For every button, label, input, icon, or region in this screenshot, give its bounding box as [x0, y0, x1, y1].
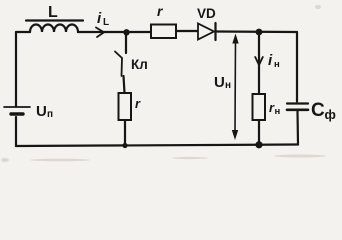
wire bottom rail: [16, 145, 298, 147]
node junction dot (switch branch, top): [123, 29, 129, 35]
svg-text:U: U: [214, 74, 225, 91]
battery Un: [4, 107, 30, 114]
wire top rail left segment: [16, 31, 30, 33]
inductor L: [26, 21, 83, 33]
wire resistor to bottom rail: [124, 120, 126, 146]
svg-text:L: L: [103, 17, 109, 28]
switch Kl: [115, 52, 122, 77]
wire switch branch upper: [125, 33, 127, 54]
wire top rail with current arrow i_L: [78, 28, 151, 38]
voltage arrow U_n (double-headed): [232, 34, 239, 141]
resistor r (series, top): [151, 25, 176, 39]
wire switch to resistor: [124, 76, 125, 93]
svg-text:Кл: Кл: [131, 57, 148, 72]
node junction dot (load branch, top): [256, 29, 263, 36]
svg-text:п: п: [47, 109, 53, 120]
svg-text:U: U: [36, 103, 47, 120]
wire load branch with current arrow i_n: [255, 32, 263, 94]
svg-text:С: С: [311, 100, 325, 121]
wire capacitor branch upper: [296, 32, 298, 102]
svg-text:ф: ф: [325, 107, 336, 122]
wire resistor to diode: [176, 30, 197, 32]
capacitor C_f: [287, 104, 308, 110]
svg-text:н: н: [275, 106, 281, 117]
node junction dot (load branch, bottom): [255, 141, 262, 148]
wire capacitor to bottom rail: [296, 111, 299, 145]
resistor r_n: [253, 94, 266, 120]
wire diode to top-right corner: [217, 30, 298, 33]
svg-text:н: н: [274, 59, 280, 70]
svg-text:н: н: [225, 80, 231, 91]
wire load resistor to bottom rail: [258, 120, 260, 145]
svg-text:L: L: [48, 4, 58, 21]
diode VD: [198, 23, 216, 40]
wire left side upper: [15, 32, 17, 106]
wire left side lower: [15, 117, 17, 146]
svg-text:VD: VD: [197, 6, 216, 21]
node junction dot (switch branch, bottom): [122, 143, 127, 148]
resistor r (switch branch): [119, 93, 132, 120]
